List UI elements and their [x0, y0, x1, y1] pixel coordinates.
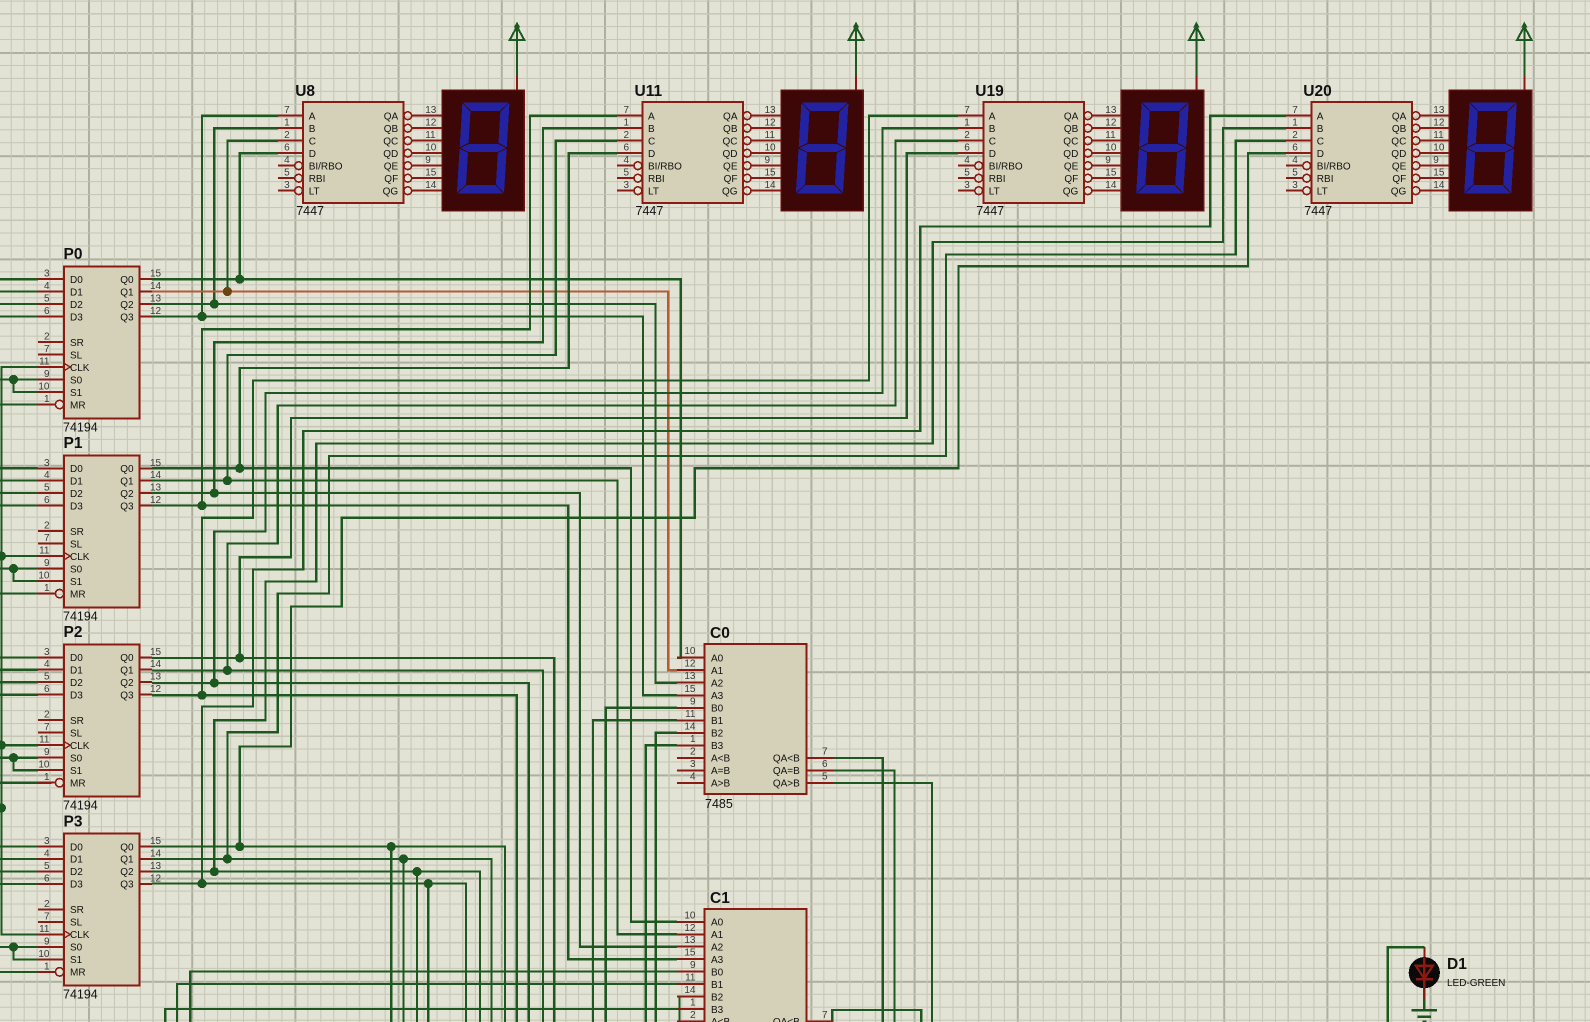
node P1.Q3 junction [197, 501, 206, 510]
node P3.Q1 junction [223, 854, 232, 863]
svg-text:2: 2 [690, 746, 696, 757]
svg-text:1: 1 [44, 961, 50, 972]
register P1 74194 [38, 435, 162, 623]
svg-text:CLK: CLK [70, 363, 90, 374]
node P3.S0 junction [9, 942, 18, 951]
svg-text:B2: B2 [711, 729, 724, 740]
svg-text:2: 2 [964, 130, 970, 141]
7-segment display DS1 [442, 90, 524, 211]
power arrow VCC4 [1517, 22, 1532, 91]
wire P1.Q2 row to C1.A2 [152, 493, 677, 947]
node P3.Q0 tap junction [387, 842, 396, 851]
node P2.S0 junction [9, 753, 18, 762]
svg-text:7: 7 [44, 344, 50, 355]
svg-text:4: 4 [690, 771, 696, 782]
wire CLK bus [1, 367, 38, 934]
svg-text:QG: QG [722, 187, 738, 198]
svg-text:BI/RBO: BI/RBO [648, 162, 682, 173]
svg-text:10: 10 [38, 949, 50, 960]
node P2.Q0 junction [235, 653, 244, 662]
svg-text:7: 7 [284, 105, 290, 116]
wire C0.B2 feeder [656, 733, 677, 1022]
svg-text:SR: SR [70, 338, 84, 349]
wire P1.D1 input wire [0, 480, 38, 482]
svg-text:9: 9 [765, 155, 771, 166]
wire P2.S0-S1 link [14, 758, 39, 771]
svg-text:14: 14 [150, 281, 162, 292]
svg-text:13: 13 [150, 672, 162, 683]
svg-text:10: 10 [684, 910, 696, 921]
svg-text:QF: QF [1392, 174, 1406, 185]
svg-text:15: 15 [425, 168, 437, 179]
svg-text:14: 14 [684, 985, 696, 996]
svg-text:15: 15 [150, 269, 162, 280]
svg-text:2: 2 [44, 332, 50, 343]
svg-text:5: 5 [44, 861, 50, 872]
svg-text:14: 14 [765, 180, 777, 191]
svg-text:S0: S0 [70, 754, 83, 765]
wire C1.QA<B output [832, 1010, 921, 1022]
wire C0.B1 feeder [593, 720, 677, 1022]
svg-text:5: 5 [1292, 168, 1298, 179]
svg-text:5: 5 [964, 168, 970, 179]
svg-text:14: 14 [150, 470, 162, 481]
svg-text:D: D [648, 149, 655, 160]
svg-text:11: 11 [39, 735, 50, 746]
wire C0.QA<B output [834, 758, 883, 1022]
svg-text:9: 9 [44, 747, 50, 758]
svg-text:P3: P3 [64, 813, 83, 830]
node P2.Q3 junction [197, 691, 206, 700]
svg-text:2: 2 [284, 130, 290, 141]
svg-text:QA: QA [723, 112, 738, 123]
svg-text:QB: QB [1064, 124, 1079, 135]
node P3.Q3 junction [197, 879, 206, 888]
svg-text:2: 2 [44, 899, 50, 910]
svg-text:1: 1 [964, 118, 970, 129]
svg-text:13: 13 [150, 483, 162, 494]
wire P3.MR wire [0, 971, 52, 973]
wire U8.D to P0.Q0 bus [240, 153, 278, 279]
node CLK junction P1 [0, 552, 6, 561]
svg-text:10: 10 [765, 143, 777, 154]
svg-text:Q3: Q3 [120, 312, 134, 323]
svg-text:D0: D0 [70, 653, 83, 664]
svg-text:S1: S1 [70, 955, 83, 966]
wire U19.B to P2.Q2 bus [214, 128, 958, 683]
wire P2.Q3 row down [152, 695, 517, 1022]
node P0.Q2 junction [210, 299, 219, 308]
svg-text:10: 10 [1105, 143, 1117, 154]
svg-text:3: 3 [1292, 180, 1298, 191]
svg-text:B: B [1317, 124, 1324, 135]
svg-text:12: 12 [150, 684, 162, 695]
svg-text:B1: B1 [711, 716, 724, 727]
wire U8.B to P0.Q2 bus [214, 128, 277, 304]
svg-text:SR: SR [70, 905, 84, 916]
svg-text:11: 11 [39, 546, 50, 557]
svg-text:D3: D3 [70, 501, 83, 512]
wire P1.D3 input wire [0, 505, 38, 507]
svg-text:SL: SL [70, 729, 83, 740]
svg-text:3: 3 [44, 836, 50, 847]
svg-text:QA>B: QA>B [773, 779, 800, 790]
svg-text:D3: D3 [70, 880, 83, 891]
svg-text:SL: SL [70, 350, 83, 361]
wire C0.B3 feeder [646, 745, 677, 1022]
svg-text:B: B [309, 124, 316, 135]
svg-text:RBI: RBI [309, 174, 326, 185]
svg-text:9: 9 [44, 369, 50, 380]
register P2 74194 [38, 624, 162, 812]
svg-text:74194: 74194 [63, 420, 98, 434]
svg-text:6: 6 [964, 143, 970, 154]
svg-text:12: 12 [150, 873, 162, 884]
7-segment display DS3 [1121, 90, 1203, 211]
svg-text:74194: 74194 [63, 799, 98, 813]
svg-text:QC: QC [1063, 137, 1078, 148]
node P2.Q2 junction [210, 678, 219, 687]
svg-text:QF: QF [724, 174, 738, 185]
svg-text:S0: S0 [70, 375, 83, 386]
svg-text:13: 13 [765, 105, 777, 116]
svg-text:2: 2 [44, 710, 50, 721]
svg-text:A0: A0 [711, 918, 724, 929]
svg-text:QA<B: QA<B [773, 1017, 800, 1022]
wire LED anode stub [1423, 947, 1425, 999]
svg-text:QB: QB [1392, 124, 1407, 135]
svg-text:4: 4 [1292, 155, 1298, 166]
svg-text:2: 2 [623, 130, 629, 141]
svg-text:A: A [309, 112, 316, 123]
svg-text:11: 11 [1105, 130, 1116, 141]
svg-text:Q2: Q2 [120, 867, 134, 878]
svg-text:QD: QD [723, 149, 738, 160]
svg-text:3: 3 [44, 647, 50, 658]
svg-text:1: 1 [690, 997, 696, 1008]
svg-text:11: 11 [39, 357, 50, 368]
svg-text:CLK: CLK [70, 930, 90, 941]
svg-text:LT: LT [648, 187, 659, 198]
node P0.Q3 junction [197, 312, 206, 321]
svg-text:A: A [648, 112, 655, 123]
wire P0.Q1 row to C0.A1 (highlighted) [152, 292, 677, 671]
svg-text:11: 11 [765, 130, 776, 141]
svg-text:D1: D1 [1447, 956, 1467, 973]
wire P2.D0 input wire [0, 656, 38, 658]
wire P2.D2 input wire [0, 681, 38, 683]
wire P3.D3 input wire [0, 883, 38, 885]
wire P2.MR wire [0, 782, 52, 784]
svg-text:1: 1 [690, 734, 696, 745]
wire P1.CLK spur [1, 555, 38, 557]
svg-text:3: 3 [690, 759, 696, 770]
wire C0.B0 feeder [606, 708, 677, 1022]
svg-text:QD: QD [1391, 149, 1406, 160]
svg-text:Q1: Q1 [120, 476, 134, 487]
wire U8.C to P0.Q1 bus [227, 141, 277, 292]
svg-text:A3: A3 [711, 691, 724, 702]
svg-text:S1: S1 [70, 388, 83, 399]
svg-text:LT: LT [1317, 187, 1328, 198]
svg-text:B0: B0 [711, 967, 724, 978]
svg-text:D3: D3 [70, 312, 83, 323]
wire C0.QA>B output [834, 783, 932, 1022]
svg-text:C: C [648, 137, 655, 148]
wire C1.B1 feeder [177, 984, 677, 1022]
svg-text:CLK: CLK [70, 552, 90, 563]
svg-text:BI/RBO: BI/RBO [309, 162, 343, 173]
wire P3.Q1 row down [152, 859, 491, 1022]
svg-text:A2: A2 [711, 679, 724, 690]
svg-text:5: 5 [284, 168, 290, 179]
svg-text:QA: QA [1064, 112, 1079, 123]
svg-text:RBI: RBI [989, 174, 1006, 185]
svg-text:9: 9 [1105, 155, 1111, 166]
wire U19.A to P2.Q3 bus [202, 116, 958, 696]
svg-text:P0: P0 [64, 246, 83, 263]
svg-text:12: 12 [425, 118, 437, 129]
wire P0.D0 input wire [0, 278, 38, 280]
svg-text:QC: QC [723, 137, 738, 148]
svg-text:7: 7 [44, 911, 50, 922]
svg-text:Q1: Q1 [120, 287, 134, 298]
svg-text:1: 1 [284, 118, 290, 129]
node P2.Q1 junction [223, 666, 232, 675]
wire P2.Q0 row down [152, 658, 554, 1022]
svg-text:U19: U19 [975, 83, 1004, 100]
wire U11.B to P1.Q2 bus [214, 128, 617, 493]
svg-text:13: 13 [684, 935, 696, 946]
svg-text:B2: B2 [711, 992, 724, 1003]
svg-text:11: 11 [1433, 130, 1444, 141]
node CLK bus stray junction [0, 803, 6, 812]
node P3.Q2 tap junction [412, 867, 421, 876]
svg-text:10: 10 [38, 760, 50, 771]
svg-text:5: 5 [822, 771, 828, 782]
wire P3.Q3 tap down [427, 884, 429, 1022]
svg-text:Q0: Q0 [120, 653, 134, 664]
svg-text:12: 12 [684, 923, 696, 934]
svg-text:12: 12 [1105, 118, 1117, 129]
svg-text:B: B [989, 124, 996, 135]
comparator C1 7485 [677, 890, 834, 1022]
svg-text:4: 4 [623, 155, 629, 166]
svg-text:6: 6 [44, 306, 50, 317]
svg-text:A<B: A<B [711, 1017, 731, 1022]
svg-text:SL: SL [70, 539, 83, 550]
svg-text:U20: U20 [1303, 83, 1331, 100]
wire P1.S0-S1 link [14, 569, 39, 582]
svg-text:QC: QC [383, 137, 398, 148]
wire P3.D1 input wire [0, 858, 38, 860]
svg-text:3: 3 [44, 269, 50, 280]
svg-text:B1: B1 [711, 980, 724, 991]
svg-text:5: 5 [44, 483, 50, 494]
svg-text:6: 6 [44, 873, 50, 884]
svg-text:15: 15 [684, 948, 696, 959]
svg-text:4: 4 [284, 155, 290, 166]
svg-text:D1: D1 [70, 855, 83, 866]
wire C0.QA=B output [834, 770, 895, 1022]
svg-text:13: 13 [684, 671, 696, 682]
svg-text:1: 1 [44, 772, 50, 783]
svg-text:Q2: Q2 [120, 678, 134, 689]
svg-text:D: D [309, 149, 316, 160]
wire P0.D3 input wire [0, 315, 38, 317]
svg-text:D3: D3 [70, 691, 83, 702]
svg-text:10: 10 [38, 571, 50, 582]
svg-text:D: D [989, 149, 996, 160]
svg-text:4: 4 [44, 281, 50, 292]
svg-text:14: 14 [1105, 180, 1117, 191]
svg-text:7: 7 [44, 533, 50, 544]
svg-text:11: 11 [685, 973, 696, 984]
svg-text:2: 2 [690, 1010, 696, 1021]
wire P3.Q3 row down [152, 884, 466, 1022]
wire P3.D2 input wire [0, 870, 38, 872]
svg-text:C: C [1317, 137, 1324, 148]
wire P0.S0-S1 link [14, 380, 39, 393]
comparator C0 7485 [677, 625, 834, 811]
register P0 74194 [38, 246, 162, 434]
svg-text:QE: QE [1064, 162, 1079, 173]
svg-text:15: 15 [1433, 168, 1445, 179]
svg-text:MR: MR [70, 400, 86, 411]
node P3.Q0 junction [235, 842, 244, 851]
node P1.Q2 junction [210, 489, 219, 498]
svg-text:5: 5 [44, 672, 50, 683]
svg-text:7: 7 [822, 1010, 828, 1021]
svg-text:D2: D2 [70, 489, 83, 500]
svg-text:3: 3 [964, 180, 970, 191]
svg-text:13: 13 [1433, 105, 1445, 116]
wire U11.A to P1.Q3 bus [202, 116, 617, 506]
wire U11.C to P1.Q1 bus [227, 141, 617, 481]
svg-text:QE: QE [723, 162, 738, 173]
svg-text:QD: QD [383, 149, 398, 160]
svg-text:D2: D2 [70, 300, 83, 311]
svg-text:S0: S0 [70, 564, 83, 575]
svg-text:9: 9 [690, 696, 696, 707]
svg-text:6: 6 [1292, 143, 1298, 154]
power arrow VCC1 [510, 22, 525, 91]
svg-text:SL: SL [70, 918, 83, 929]
wire P1.D0 input wire [0, 467, 38, 469]
svg-text:S0: S0 [70, 943, 83, 954]
power arrow VCC3 [1189, 22, 1204, 91]
svg-text:13: 13 [1105, 105, 1117, 116]
node P1.S0 junction [9, 564, 18, 573]
svg-text:14: 14 [1433, 180, 1445, 191]
svg-text:14: 14 [150, 848, 162, 859]
svg-text:C: C [989, 137, 996, 148]
svg-text:S1: S1 [70, 766, 83, 777]
wire P3.Q1 tap down [402, 859, 404, 1022]
svg-text:3: 3 [623, 180, 629, 191]
svg-text:QG: QG [383, 187, 399, 198]
wire P2.Q2 row down [152, 683, 529, 1022]
svg-text:Q3: Q3 [120, 880, 134, 891]
node P3.Q1 tap junction [399, 854, 408, 863]
wire P2.D3 input wire [0, 694, 38, 696]
svg-text:BI/RBO: BI/RBO [1317, 162, 1351, 173]
svg-text:QC: QC [1391, 137, 1406, 148]
wire P3.D0 input wire [0, 845, 38, 847]
wire P0.S0 wire [0, 378, 38, 380]
svg-text:14: 14 [150, 659, 162, 670]
svg-text:15: 15 [765, 168, 777, 179]
svg-text:A1: A1 [711, 930, 724, 941]
svg-text:D1: D1 [70, 287, 83, 298]
svg-text:D1: D1 [70, 666, 83, 677]
svg-text:1: 1 [44, 394, 50, 405]
wire P1.MR wire [0, 592, 52, 594]
wire U20.C to P3.Q1 bus [227, 141, 1286, 859]
svg-text:Q0: Q0 [120, 275, 134, 286]
wire C1.B2 feeder [677, 997, 680, 1022]
wire P0.D2 input wire [0, 303, 38, 305]
svg-text:6: 6 [44, 495, 50, 506]
svg-text:D: D [1317, 149, 1324, 160]
decoder U8 7447 [278, 83, 442, 218]
svg-text:5: 5 [44, 294, 50, 305]
wire P0.MR wire [0, 403, 52, 405]
svg-text:QA: QA [384, 112, 399, 123]
svg-text:7: 7 [623, 105, 629, 116]
svg-text:QB: QB [384, 124, 399, 135]
svg-text:9: 9 [690, 960, 696, 971]
svg-text:SR: SR [70, 716, 84, 727]
wire U11.D to P1.Q0 bus [240, 153, 617, 468]
node P0.Q0 junction [235, 275, 244, 284]
svg-text:7: 7 [822, 746, 828, 757]
wire P2.CLK spur [1, 744, 38, 746]
svg-text:4: 4 [964, 155, 970, 166]
svg-text:Q0: Q0 [120, 842, 134, 853]
svg-text:LED-GREEN: LED-GREEN [1447, 978, 1505, 989]
wire P1.Q1 row to C1.A1 [152, 481, 677, 935]
svg-text:B: B [648, 124, 655, 135]
svg-text:14: 14 [684, 721, 696, 732]
svg-text:CLK: CLK [70, 741, 90, 752]
svg-text:4: 4 [44, 848, 50, 859]
svg-text:C0: C0 [710, 625, 730, 642]
node P1.Q1 junction [223, 476, 232, 485]
svg-text:QB: QB [723, 124, 738, 135]
svg-text:10: 10 [684, 646, 696, 657]
wire C1.B3 feeder [165, 1009, 677, 1022]
svg-text:D0: D0 [70, 464, 83, 475]
svg-text:13: 13 [150, 861, 162, 872]
svg-text:15: 15 [150, 836, 162, 847]
svg-text:C: C [309, 137, 316, 148]
svg-text:QF: QF [384, 174, 398, 185]
svg-text:11: 11 [425, 130, 436, 141]
svg-text:QE: QE [1392, 162, 1407, 173]
wire P0.D1 input wire [0, 290, 38, 292]
wire LED cathode to ground [1423, 988, 1425, 1010]
node P0.Q1 junction [223, 287, 232, 296]
svg-text:QG: QG [1391, 187, 1407, 198]
wire P1.D2 input wire [0, 492, 38, 494]
svg-text:1: 1 [44, 583, 50, 594]
node CLK junction P2 [0, 741, 6, 750]
decoder U19 7447 [958, 83, 1122, 218]
svg-text:D2: D2 [70, 867, 83, 878]
wire P3.Q0 row down [152, 847, 505, 1022]
svg-text:3: 3 [284, 180, 290, 191]
